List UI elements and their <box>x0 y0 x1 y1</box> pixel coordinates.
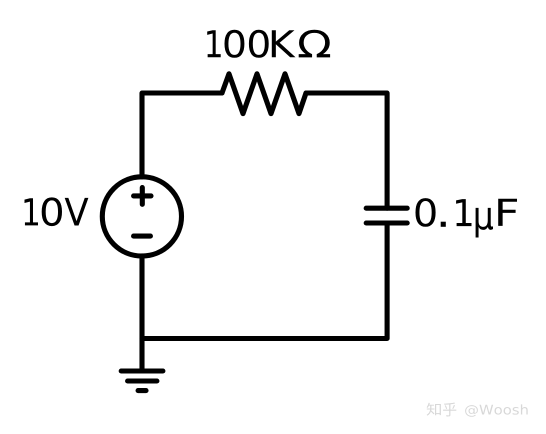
label 100KΩ digit 1 <box>207 30 221 57</box>
minus sign of source <box>134 234 151 239</box>
label 0.1µF digit 0 <box>415 198 435 227</box>
capacitor C1 top plate <box>366 206 407 211</box>
ground bar 2 <box>128 378 157 383</box>
ground bar 1 <box>121 368 163 373</box>
label 0.1µF letter F <box>498 199 517 226</box>
ground bar 3 <box>138 388 146 393</box>
wire top-right: lead from resistor to capacitor top plate <box>306 93 387 208</box>
resistor R1 100KΩ zigzag <box>222 74 306 114</box>
watermark glyph 乎 <box>443 402 456 416</box>
label 10V letter V <box>65 198 89 226</box>
label 0.1µF mu <box>476 208 493 238</box>
capacitor C1 bottom plate <box>366 220 407 225</box>
wire: source bottom to ground <box>139 256 144 371</box>
label 0.1µF digit 1 <box>456 199 471 226</box>
wire bottom: from capacitor bottom plate to bottom-left junction <box>142 223 387 339</box>
label 100KΩ digit 0 (first) <box>225 30 245 58</box>
watermark glyph 知 <box>427 403 441 416</box>
label 10V digit 0 <box>42 197 62 226</box>
voltage source V1 circle <box>102 177 181 256</box>
watermark text @Woosh <box>465 404 528 416</box>
wire top-left: left vertical riser and top lead to resistor <box>142 93 222 177</box>
label 10V digit 1 <box>24 198 38 225</box>
plus sign of source <box>134 188 151 205</box>
label 100KΩ omega <box>299 30 330 58</box>
label 0.1µF decimal point <box>441 222 446 227</box>
label 100KΩ letter K <box>272 30 296 57</box>
label 100KΩ digit 0 (second) <box>249 30 269 58</box>
